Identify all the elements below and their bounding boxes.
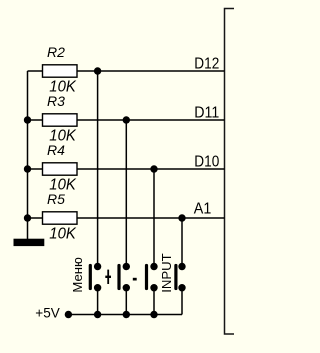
svg-text:R2: R2	[47, 44, 65, 60]
svg-text:Меню: Меню	[70, 257, 85, 293]
svg-text:10K: 10K	[49, 176, 76, 193]
svg-text:D12: D12	[194, 56, 219, 73]
svg-text:A1: A1	[194, 201, 212, 218]
svg-text:10K: 10K	[49, 78, 76, 95]
svg-text:R5: R5	[47, 191, 65, 207]
svg-text:R4: R4	[47, 142, 65, 158]
svg-text:10K: 10K	[49, 127, 76, 144]
svg-text:D10: D10	[194, 154, 219, 171]
svg-text:INPUT: INPUT	[159, 253, 174, 293]
svg-text:R3: R3	[47, 93, 65, 109]
svg-text:D11: D11	[194, 105, 219, 122]
svg-text:+5V: +5V	[35, 305, 60, 321]
svg-text:10K: 10K	[49, 225, 76, 242]
